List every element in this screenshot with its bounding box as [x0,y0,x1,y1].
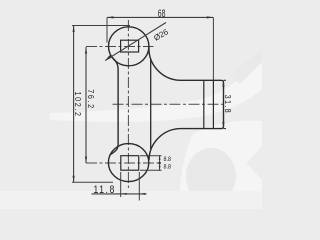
small dim ext bottom [140,169,162,171]
svg-text:76.2: 76.2 [86,89,95,110]
watermark blob [178,121,262,209]
watermark gray disc [186,148,236,204]
dim 102.2 ext top [72,25,130,27]
arrow 68 right [207,16,214,18]
svg-text:31.8: 31.8 [223,95,232,114]
text 68 [73,7,233,196]
dim 11.8 line [92,193,147,195]
arrow 68 left [107,16,114,18]
boss circle top [109,27,149,66]
arrow small top [159,156,161,160]
arrow 76.2 top [85,47,87,54]
arrow 31.8 top [222,80,224,87]
svg-text:8.8: 8.8 [163,157,170,163]
dim 68 ext right [212,17,214,80]
small dim line bracket [159,155,161,171]
keyway rect top [121,40,139,52]
arm edge line [150,60,152,150]
dim 68 ext left [106,17,108,42]
arrow 102.2 bottom [73,176,75,183]
arrow 31.8 bottom [222,122,224,129]
dim 11.8 ext right [138,172,140,201]
small dim ext top [140,155,162,157]
arrow 11.8 right [139,193,145,195]
centerline top circle [86,46,154,48]
centerline vertical [127,20,129,188]
arrow leader [105,55,111,60]
arrow 102.2 top [73,26,75,33]
pad line inner [212,81,214,128]
dim 68 line [107,16,213,18]
dim 102.2 ext bottom [72,181,113,183]
svg-text:68: 68 [158,7,166,19]
dim 102.2 line [73,26,75,183]
pad line left [203,81,205,128]
arrow small middle [159,162,161,164]
arrow 76.2 bottom [85,157,87,164]
svg-text:102.2: 102.2 [73,91,82,117]
svg-text:8.8: 8.8 [163,164,170,170]
arrow 11.8 left [121,193,127,195]
centerline bottom circle [86,162,162,164]
dim 76.2 line [85,47,87,163]
boss circle bottom [108,144,148,182]
centerline horizontal arm [113,103,225,105]
arrow small bottom [159,166,161,170]
dim 11.8 ext left [120,172,122,197]
watermark dark wedge [230,48,262,84]
keyway rect bottom [121,156,139,171]
svg-text:11.8: 11.8 [93,184,116,196]
watermark band [50,55,262,122]
watermark bottom band [0,191,262,209]
outline right arm [149,47,224,160]
pad edge stubs [224,79,226,81]
leader diameter [105,23,166,61]
outline left waist [110,56,119,156]
